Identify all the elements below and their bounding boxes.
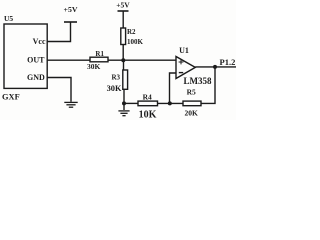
node B junction dot: [122, 101, 126, 105]
svg-text:P1.2: P1.2: [220, 57, 236, 67]
svg-text:GXF: GXF: [2, 93, 20, 102]
wire R1 to node A to op-amp + input: [108, 59, 176, 61]
op-amp - input symbol: [179, 72, 183, 74]
svg-text:R2: R2: [127, 28, 136, 36]
wire OUT pin to R1: [47, 59, 90, 61]
power +5V bar (top, above R2): [118, 10, 129, 12]
wire node A to R3: [123, 60, 125, 70]
svg-text:100K: 100K: [127, 38, 144, 46]
svg-text:U1: U1: [179, 46, 189, 55]
svg-text:U5: U5: [4, 14, 13, 23]
op-amp + input symbol: [179, 60, 184, 65]
svg-text:Vcc: Vcc: [33, 37, 46, 46]
svg-text:R1: R1: [95, 50, 104, 58]
wire node B to ground: [123, 103, 125, 110]
wire feedback node C to op-amp inverting input: [170, 73, 177, 103]
resistor R5 body: [183, 101, 201, 106]
wire R3 to node B: [123, 89, 125, 103]
svg-text:30K: 30K: [87, 62, 101, 71]
svg-text:R3: R3: [111, 74, 120, 82]
resistor R2 body: [121, 28, 126, 45]
svg-text:OUT: OUT: [27, 56, 45, 65]
svg-text:GND: GND: [27, 73, 45, 82]
svg-text:+5V: +5V: [116, 1, 130, 10]
wire Vcc pin to +5V: [47, 22, 71, 42]
resistor R4 body: [138, 101, 158, 106]
node C junction dot: [168, 101, 172, 105]
svg-text:+5V: +5V: [64, 5, 78, 14]
svg-text:R4: R4: [143, 93, 152, 102]
resistor R1 body: [90, 57, 108, 62]
ground (under R3): [118, 111, 129, 116]
svg-text:20K: 20K: [185, 109, 199, 118]
ground (left, under U5 GND): [64, 102, 77, 107]
svg-text:30K: 30K: [107, 84, 122, 93]
wire op-amp output to P1.2: [195, 66, 236, 68]
wire R5 to output node: [201, 67, 215, 104]
resistor R3 body: [123, 70, 128, 89]
node A junction dot: [121, 58, 125, 62]
power +5V bar (left): [64, 21, 77, 23]
op-amp U1 triangle: [176, 57, 195, 79]
svg-text:10K: 10K: [139, 110, 157, 121]
wire node B to R4: [124, 102, 138, 104]
wire R4 to node C: [158, 102, 184, 104]
wire +5V to R2: [122, 11, 124, 28]
wire GND pin to ground: [47, 78, 71, 102]
wire R2 to node A: [122, 45, 124, 61]
svg-text:LM358: LM358: [184, 76, 212, 86]
output node junction dot: [213, 65, 217, 69]
svg-text:R5: R5: [187, 88, 196, 97]
IC U5 box: [4, 24, 47, 88]
